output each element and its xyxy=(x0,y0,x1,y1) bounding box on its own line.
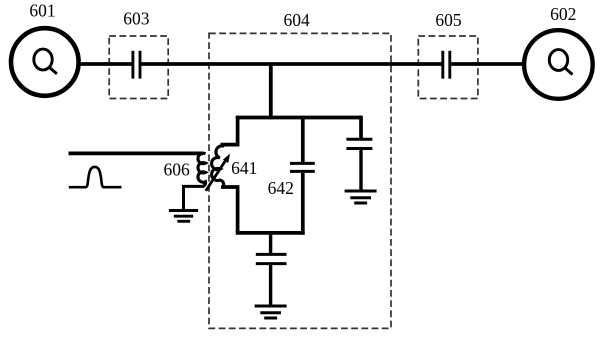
svg-text:606: 606 xyxy=(163,159,190,179)
capacitor 642 xyxy=(290,163,315,171)
capacitor (bottom shunt) xyxy=(256,254,287,263)
ground (primary 606) xyxy=(169,211,198,222)
wire capacitor 603 to capacitor 605 xyxy=(140,62,443,66)
svg-text:602: 602 xyxy=(550,4,576,24)
generator 601 xyxy=(11,28,79,96)
wire primary coil bottom to ground stem xyxy=(184,186,205,210)
wire left vertical lower (inductor bottom to loop bottom) xyxy=(221,187,238,233)
ground (bottom) xyxy=(255,306,287,318)
generator 602 xyxy=(524,30,593,99)
wire right shunt branch (rail to right capacitor) xyxy=(359,118,361,139)
svg-text:601: 601 xyxy=(29,0,55,20)
label 602 xyxy=(550,4,576,24)
svg-text:603: 603 xyxy=(123,9,150,29)
dashed box 604 xyxy=(209,33,391,328)
wire bottom capacitor to ground xyxy=(269,265,272,306)
arrow of variable inductor 641 xyxy=(206,154,230,191)
capacitor 603 xyxy=(133,51,140,79)
wire drop from bus to resonator top rail xyxy=(269,64,273,119)
inductor 606 (primary coil) xyxy=(198,153,206,186)
wire right vertical of loop (top to capacitor 642) xyxy=(301,116,305,162)
label 605 xyxy=(435,10,462,30)
wire left vertical upper (rail to inductor top) xyxy=(221,116,238,145)
wire top rail of resonator xyxy=(236,116,361,120)
label 606 xyxy=(163,159,190,179)
capacitor 605 xyxy=(443,51,450,79)
wire input line to primary coil xyxy=(69,152,204,156)
ground (right) xyxy=(345,191,377,203)
wire bottom rail of loop xyxy=(236,231,305,235)
svg-text:642: 642 xyxy=(268,178,294,198)
label 604 xyxy=(283,10,310,30)
svg-text:604: 604 xyxy=(283,10,310,30)
label 601 xyxy=(29,0,55,20)
wire generator 601 to capacitor 603 xyxy=(44,62,133,66)
wire capacitor 605 to generator 602 xyxy=(450,62,558,66)
capacitor (right shunt) xyxy=(346,139,372,148)
pulse waveform icon xyxy=(69,167,122,187)
label 603 xyxy=(123,9,150,29)
dashed box 603 xyxy=(109,36,168,99)
inductor 641 (variable secondary coil) xyxy=(212,146,225,187)
label 642 xyxy=(268,178,294,198)
wire right capacitor to ground xyxy=(359,150,362,191)
label 641 xyxy=(231,158,257,178)
svg-text:605: 605 xyxy=(435,10,462,30)
svg-text:641: 641 xyxy=(231,158,257,178)
wire bottom tap (loop bottom to bottom capacitor) xyxy=(269,233,272,254)
dashed box 605 xyxy=(418,36,478,99)
wire right vertical of loop (capacitor 642 to bottom rail) xyxy=(301,173,305,235)
